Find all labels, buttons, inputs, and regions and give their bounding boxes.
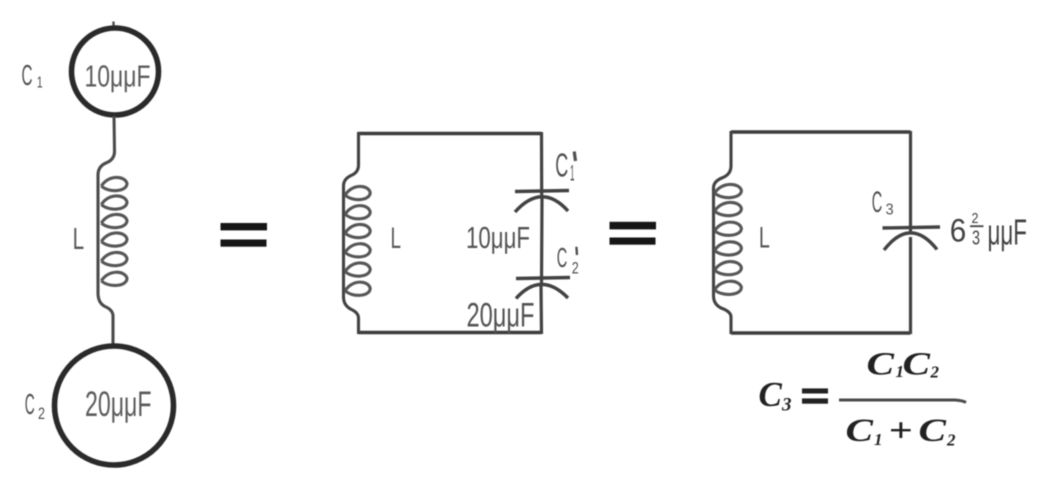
- formula equals sign: [802, 388, 828, 393]
- wire top-right segment (middle circuit): [540, 132, 543, 197]
- wire between C1' and C2': [540, 198, 544, 285]
- right circuit: bottom wire: [731, 331, 911, 334]
- capacitor C3: straight plate: [883, 227, 941, 228]
- svg-text:L: L: [391, 222, 402, 255]
- wire nub at top of C1: [112, 22, 114, 26]
- capacitor C1 (circle symbol, left circuit): [72, 28, 159, 115]
- equals sign 2: [610, 222, 657, 245]
- label C3: [872, 186, 894, 219]
- inductor L (left circuit): [98, 150, 127, 344]
- formula C3 = C1C2/(C1+C2): [759, 347, 967, 450]
- svg-text:3: 3: [972, 228, 980, 250]
- middle circuit: top wire: [358, 132, 542, 135]
- middle circuit: bottom wire: [358, 331, 542, 334]
- label C1: [22, 60, 43, 92]
- svg-text:L: L: [73, 221, 85, 256]
- capacitor C2 (circle symbol, left circuit): [55, 346, 174, 465]
- svg-text:2: 2: [38, 404, 45, 423]
- svg-text:C: C: [846, 413, 875, 449]
- svg-text:3: 3: [886, 202, 894, 219]
- wire below C2': [539, 285, 543, 334]
- equals sign 1: [221, 223, 268, 247]
- svg-text:C: C: [903, 347, 932, 383]
- formula fraction bar: [839, 400, 966, 403]
- svg-text:2: 2: [930, 363, 940, 382]
- svg-text:C: C: [22, 60, 33, 92]
- svg-text:C: C: [867, 347, 896, 383]
- label C2: [25, 389, 45, 423]
- svg-text:20μμF: 20μμF: [85, 384, 152, 424]
- capacitor C1' (middle circuit): straight plate: [515, 191, 569, 192]
- svg-text:3: 3: [781, 395, 792, 416]
- value label 6 2/3 μμF: [950, 210, 1027, 253]
- inductor L (right circuit): [714, 131, 742, 334]
- wire below C3: [909, 237, 912, 334]
- svg-text:+: +: [889, 413, 913, 450]
- svg-text:10μμF: 10μμF: [85, 58, 151, 93]
- svg-text:1: 1: [874, 430, 883, 449]
- svg-text:C: C: [557, 242, 568, 273]
- svg-text:C: C: [25, 389, 35, 421]
- capacitor C1' curved plate: [515, 197, 568, 212]
- svg-text:C: C: [555, 146, 568, 183]
- svg-text:10μμF: 10μμF: [466, 221, 530, 255]
- wire C1 to inductor: [113, 116, 117, 152]
- label C1': [555, 146, 575, 185]
- svg-text:C: C: [919, 413, 948, 449]
- svg-text:20μμF: 20μμF: [467, 297, 535, 335]
- capacitor C2' curved plate: [516, 284, 568, 298]
- svg-text:6: 6: [950, 212, 967, 248]
- label C2': [557, 242, 579, 278]
- svg-text:1: 1: [37, 75, 43, 92]
- inductor L (middle circuit) with lead stubs: [344, 132, 371, 334]
- svg-text:2: 2: [572, 259, 579, 278]
- svg-text:μμF: μμF: [988, 212, 1028, 253]
- svg-text:2: 2: [946, 431, 956, 450]
- svg-text:L: L: [759, 222, 770, 255]
- capacitor C3: curved plate: [884, 233, 937, 250]
- svg-text:1: 1: [570, 161, 575, 186]
- capacitor C2' (middle circuit): straight plate: [516, 278, 570, 279]
- svg-text:C: C: [872, 186, 883, 219]
- right circuit: top wire: [731, 130, 911, 133]
- svg-text:2: 2: [972, 210, 979, 227]
- wire top-right segment (right circuit): [909, 131, 912, 234]
- svg-text:C: C: [759, 375, 783, 414]
